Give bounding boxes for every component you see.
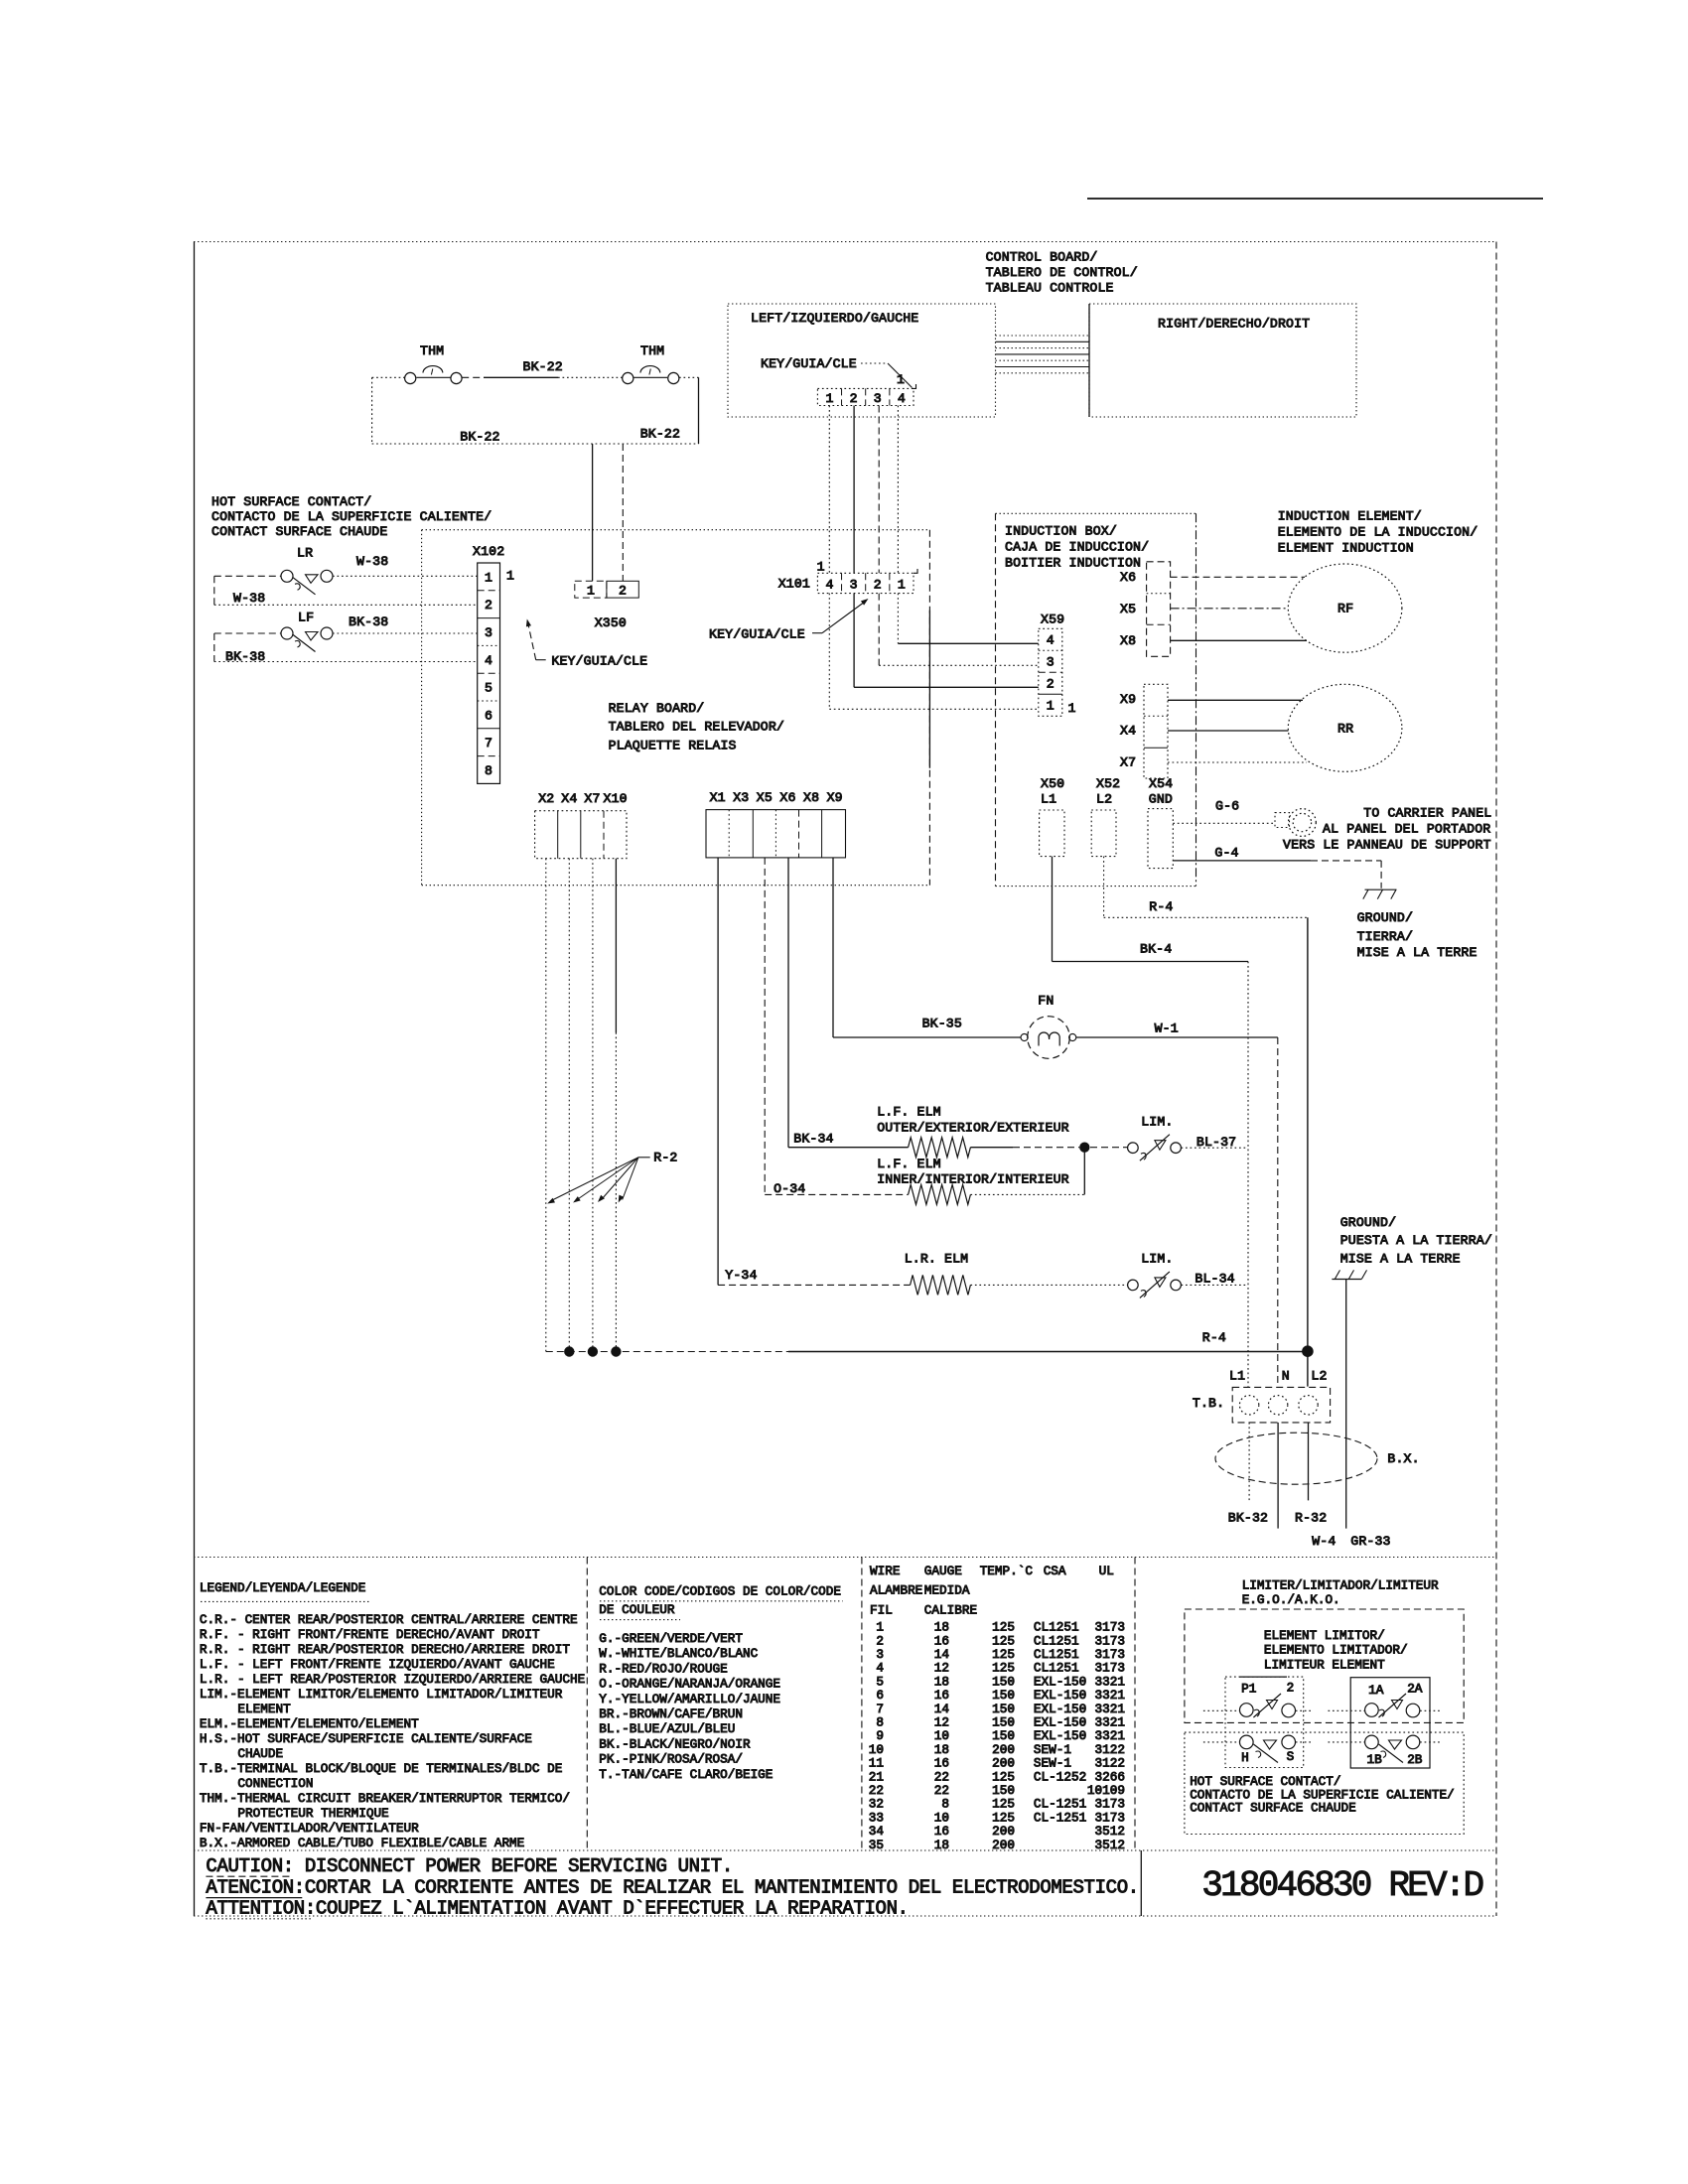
svg-text:TABLERO DE CONTROL/: TABLERO DE CONTROL/ [986, 265, 1138, 280]
key label for left board connector [761, 356, 913, 388]
wire key2 control to X101 [853, 406, 855, 574]
svg-text:1: 1 [587, 584, 595, 599]
svg-text:RIGHT/DERECHO/DROIT: RIGHT/DERECHO/DROIT [1158, 317, 1310, 332]
hot surface dotted box [1185, 1732, 1464, 1834]
ground puesta label lower [1340, 1215, 1492, 1267]
svg-text:X9: X9 [1120, 692, 1136, 707]
svg-text:FN: FN [1038, 994, 1054, 1009]
connector X350 [575, 581, 639, 630]
wire key1 control to X101 [828, 406, 830, 574]
svg-text:W-4: W-4 [1312, 1534, 1336, 1549]
svg-text:L.R. ELM: L.R. ELM [905, 1252, 969, 1267]
wire GR-33 ground to B.X. [1345, 1280, 1347, 1529]
svg-text:3: 3 [850, 578, 858, 593]
svg-text:INDUCTION BOX/: INDUCTION BOX/ [1005, 523, 1117, 538]
svg-text:W-1: W-1 [1155, 1022, 1179, 1036]
wire LF outer to junction [970, 1147, 1079, 1149]
svg-text:THM.-THERMAL CIRCUIT BREAKER/I: THM.-THERMAL CIRCUIT BREAKER/INTERRUPTOR… [200, 1791, 570, 1806]
svg-text:X102: X102 [473, 544, 504, 559]
svg-text:1: 1 [897, 372, 905, 387]
svg-text:1: 1 [506, 569, 514, 584]
svg-text:18: 18 [934, 1838, 949, 1852]
svg-text:1: 1 [825, 391, 833, 406]
svg-text:ATENCION:CORTAR LA CORRIENTE A: ATENCION:CORTAR LA CORRIENTE ANTES DE RE… [206, 1876, 1138, 1898]
svg-text:ELEMENTO LIMITADOR/: ELEMENTO LIMITADOR/ [1264, 1643, 1408, 1658]
caution text english [206, 1855, 733, 1877]
svg-text:BL.-BLUE/AZUL/BLEU: BL.-BLUE/AZUL/BLEU [599, 1721, 735, 1736]
divider colorcode/wiretable [861, 1558, 863, 1851]
svg-text:THM: THM [420, 343, 444, 358]
svg-text:N: N [1282, 1368, 1290, 1383]
svg-text:H.S.-HOT SURFACE/SUPERFICIE CA: H.S.-HOT SURFACE/SUPERFICIE CALIENTE/SUR… [200, 1731, 532, 1746]
limiter switch LIM2 [1128, 1252, 1182, 1291]
svg-text:L.R. - LEFT REAR/POSTERIOR IZQ: L.R. - LEFT REAR/POSTERIOR IZQUIERDO/ARR… [200, 1672, 585, 1687]
svg-text:TIERRA/: TIERRA/ [1357, 929, 1413, 944]
svg-text:TEMP.`C: TEMP.`C [980, 1564, 1034, 1578]
svg-text:BK-22: BK-22 [523, 359, 563, 374]
svg-text:2: 2 [850, 391, 858, 406]
element LF inner resistor [909, 1184, 971, 1204]
svg-text:X54: X54 [1149, 776, 1173, 791]
svg-text:2: 2 [1287, 1681, 1295, 1696]
svg-text:X59: X59 [1041, 613, 1064, 627]
wire X6 to RF [1171, 576, 1305, 578]
legend area top separator [194, 1557, 1496, 1559]
wire BK-35 relay X9 to fan [833, 858, 1021, 1037]
hot surface switch 1B-2B blade [1379, 1740, 1404, 1763]
left board connector 1-4 [817, 384, 915, 406]
control board label [986, 250, 1138, 296]
wire key3 control to X101 [878, 406, 880, 574]
switch LR hot surface contact [281, 546, 333, 583]
top title rule [1087, 198, 1543, 200]
ring terminal to carrier panel [1275, 809, 1316, 837]
junction LF elements [1079, 1143, 1089, 1153]
svg-text:LIMITEUR ELEMENT: LIMITEUR ELEMENT [1264, 1657, 1385, 1672]
wire X8 to RF [1171, 639, 1307, 641]
svg-text:BOITIER INDUCTION: BOITIER INDUCTION [1005, 555, 1141, 570]
svg-text:7: 7 [485, 736, 492, 751]
svg-text:X3: X3 [733, 790, 749, 805]
connector X9 X4 X7 [1120, 684, 1168, 778]
wire BK-38 lower loop [214, 633, 478, 664]
svg-text:LEFT/IZQUIERDO/GAUCHE: LEFT/IZQUIERDO/GAUCHE [751, 311, 918, 326]
svg-text:CALIBRE: CALIBRE [924, 1602, 977, 1617]
svg-text:X50: X50 [1041, 776, 1064, 791]
induction box outline [996, 513, 1196, 886]
switch LF blade [293, 632, 319, 652]
svg-text:1: 1 [1047, 698, 1055, 713]
svg-text:RF: RF [1337, 602, 1353, 616]
svg-text:FN-FAN/VENTILADOR/VENTILATEUR: FN-FAN/VENTILADOR/VENTILATEUR [200, 1821, 419, 1836]
ground tierra label upper [1357, 910, 1477, 960]
svg-text:H: H [1241, 1750, 1249, 1765]
hot surface switch H-S [1203, 1735, 1314, 1765]
svg-text:CSA: CSA [1044, 1564, 1066, 1578]
svg-text:G-4: G-4 [1214, 845, 1238, 860]
LF ELM outer label [877, 1105, 1069, 1136]
svg-text:2: 2 [1047, 676, 1055, 691]
legend entries [200, 1612, 585, 1850]
svg-text:R.R. - RIGHT REAR/POSTERIOR DE: R.R. - RIGHT REAR/POSTERIOR DERECHO/ARRI… [200, 1642, 570, 1657]
svg-text:CONTROL BOARD/: CONTROL BOARD/ [986, 250, 1098, 265]
svg-text:X7: X7 [584, 791, 600, 806]
svg-text:L.F. ELM: L.F. ELM [877, 1105, 941, 1120]
induction box label [1005, 523, 1149, 570]
svg-text:1: 1 [817, 560, 825, 575]
svg-text:GND: GND [1149, 791, 1173, 806]
connector X6 X5 X8 [1120, 562, 1171, 657]
svg-text:35: 35 [869, 1838, 884, 1852]
fan FN [1021, 994, 1076, 1059]
ground symbol lower [1332, 1270, 1366, 1279]
svg-text:B.X.: B.X. [1387, 1451, 1419, 1466]
svg-text:AL PANEL DEL PORTADOR: AL PANEL DEL PORTADOR [1323, 821, 1490, 836]
svg-text:ELEMENT INDUCTION: ELEMENT INDUCTION [1278, 541, 1414, 556]
connector X54 GND [1148, 776, 1173, 869]
control board left half box [728, 304, 996, 417]
terminal block labels L1 N L2 [1229, 1368, 1328, 1383]
svg-text:Y.-YELLOW/AMARILLO/JAUNE: Y.-YELLOW/AMARILLO/JAUNE [599, 1692, 780, 1706]
svg-text:X350: X350 [595, 615, 627, 630]
svg-text:WIRE: WIRE [870, 1564, 900, 1578]
wire X101-3 to X59-2 [854, 594, 1039, 688]
svg-text:BK-4: BK-4 [1140, 942, 1172, 957]
svg-text:DE COULEUR: DE COULEUR [599, 1602, 675, 1617]
svg-text:2A: 2A [1407, 1682, 1423, 1697]
svg-text:GAUGE: GAUGE [924, 1564, 962, 1578]
relay board box [422, 530, 930, 886]
svg-text:E.G.O./A.K.O.: E.G.O./A.K.O. [1242, 1592, 1340, 1607]
key label for X102 [526, 619, 647, 669]
hot surface switch H-S blade [1253, 1740, 1278, 1763]
svg-text:200: 200 [992, 1838, 1015, 1852]
svg-text:2: 2 [874, 578, 882, 593]
svg-text:3: 3 [874, 391, 882, 406]
svg-text:CONNECTION: CONNECTION [237, 1776, 313, 1791]
svg-text:4: 4 [898, 391, 906, 406]
hot surface contact label bottom [1190, 1774, 1454, 1815]
element limitor dashed box [1185, 1609, 1464, 1722]
svg-text:X52: X52 [1096, 776, 1120, 791]
relay board label [609, 701, 784, 752]
label R-2 with arrows [547, 1151, 677, 1204]
svg-text:INDUCTION ELEMENT/: INDUCTION ELEMENT/ [1278, 509, 1422, 524]
svg-text:ATTENTION:COUPEZ L`ALIMENTATIO: ATTENTION:COUPEZ L`ALIMENTATION AVANT D`… [206, 1897, 908, 1919]
svg-text:R-4: R-4 [1149, 899, 1173, 914]
limiter LIM2 blade [1140, 1272, 1170, 1298]
svg-text:GR-33: GR-33 [1350, 1534, 1390, 1549]
induction element RR [1288, 684, 1402, 771]
svg-text:CL-1252: CL-1252 [1034, 1769, 1086, 1784]
caution text french [206, 1897, 908, 1919]
svg-text:1: 1 [485, 570, 492, 585]
wire BK-34 relay X5 to LF outer element [788, 858, 909, 1148]
svg-text:4: 4 [1047, 632, 1055, 647]
caution text spanish [206, 1876, 1138, 1898]
svg-text:CONTACT SURFACE CHAUDE: CONTACT SURFACE CHAUDE [211, 524, 387, 539]
switch LF hot surface contact [281, 611, 333, 640]
element LR resistor [911, 1275, 971, 1295]
svg-text:X6: X6 [779, 790, 795, 805]
wire BL-37 [1182, 1135, 1249, 1150]
connector X50 L1 [1040, 776, 1065, 857]
LF ELM inner label [877, 1157, 1069, 1187]
svg-text:G-6: G-6 [1215, 799, 1239, 814]
svg-text:1: 1 [898, 578, 906, 593]
svg-text:4: 4 [825, 578, 833, 593]
svg-text:X4: X4 [561, 791, 577, 806]
svg-text:FIL: FIL [870, 1602, 893, 1617]
svg-text:INNER/INTERIOR/INTERIEUR: INNER/INTERIOR/INTERIEUR [877, 1172, 1069, 1187]
wire R-2 d [615, 859, 617, 1352]
svg-text:G.-GREEN/VERDE/VERT: G.-GREEN/VERDE/VERT [599, 1631, 743, 1646]
wire R-4 bottom bus [546, 1330, 1303, 1352]
hot surface contact label [211, 494, 492, 539]
svg-text:L.F. - LEFT FRONT/FRENTE IZQUI: L.F. - LEFT FRONT/FRENTE IZQUIERDO/AVANT… [200, 1657, 555, 1672]
svg-text:Y-34: Y-34 [725, 1268, 757, 1283]
wire R-4 from X52 [1104, 857, 1308, 1387]
svg-text:W.-WHITE/BLANCO/BLANC: W.-WHITE/BLANCO/BLANC [599, 1646, 758, 1661]
junction R-2 b [564, 1346, 574, 1356]
svg-text:1B: 1B [1367, 1752, 1383, 1767]
to carrier panel label [1283, 805, 1491, 852]
ribbon cable between board halves [996, 336, 1090, 373]
svg-text:ELM.-ELEMENT/ELEMENTO/ELEMENT: ELM.-ELEMENT/ELEMENTO/ELEMENT [200, 1716, 419, 1731]
limiter switch LIM1 [1128, 1115, 1182, 1154]
wire R-2 b [568, 859, 570, 1352]
page border frame [194, 242, 1496, 1917]
svg-text:RR: RR [1337, 722, 1353, 737]
wire G-6 to ring terminal [1173, 799, 1275, 824]
element limitor label [1264, 1628, 1408, 1673]
svg-text:LIM.: LIM. [1141, 1115, 1173, 1130]
element LF outer resistor [909, 1138, 971, 1158]
armored cable B.X. [1215, 1433, 1420, 1484]
thermal breaker THM1 [405, 343, 463, 384]
svg-text:T.B.: T.B. [1193, 1396, 1224, 1411]
svg-text:CAJA DE INDUCCION/: CAJA DE INDUCCION/ [1005, 540, 1149, 555]
svg-text:5: 5 [485, 681, 492, 696]
svg-text:RELAY BOARD/: RELAY BOARD/ [609, 701, 705, 716]
svg-text:MEDIDA: MEDIDA [924, 1583, 970, 1598]
svg-text:L1: L1 [1229, 1368, 1245, 1383]
svg-text:X5: X5 [757, 790, 773, 805]
wire X101-2 to X59-3 [879, 594, 1039, 666]
svg-text:R.F. - RIGHT FRONT/FRENTE DERE: R.F. - RIGHT FRONT/FRENTE DERECHO/AVANT … [200, 1627, 540, 1642]
svg-text:R-32: R-32 [1295, 1510, 1327, 1525]
svg-text:BK-34: BK-34 [793, 1132, 833, 1147]
svg-text:X101: X101 [778, 577, 810, 592]
svg-text:CHAUDE: CHAUDE [237, 1746, 283, 1761]
svg-text:ELEMENT LIMITOR/: ELEMENT LIMITOR/ [1264, 1628, 1385, 1643]
svg-text:L1: L1 [1041, 791, 1056, 806]
svg-text:ELEMENTO DE LA INDUCCION/: ELEMENTO DE LA INDUCCION/ [1278, 525, 1478, 540]
svg-text:CONTACTO DE LA SUPERFICIE CALI: CONTACTO DE LA SUPERFICIE CALIENTE/ [211, 509, 492, 524]
limiter EGO title [1242, 1577, 1439, 1607]
color code title [599, 1584, 842, 1620]
svg-text:B.X.-ARMORED CABLE/TUBO FLEXIB: B.X.-ARMORED CABLE/TUBO FLEXIBLE/CABLE A… [200, 1836, 524, 1850]
svg-text:X8: X8 [1120, 633, 1136, 648]
svg-text:R.-RED/ROJO/ROUGE: R.-RED/ROJO/ROUGE [599, 1661, 727, 1676]
wire W-38 lower loop [214, 576, 478, 606]
svg-text:UL: UL [1099, 1564, 1114, 1578]
wire W-4 below T.B. [1278, 1423, 1336, 1549]
wire X4 to RR [1168, 730, 1289, 732]
svg-text:BK-22: BK-22 [460, 430, 499, 445]
svg-text:X8: X8 [803, 790, 819, 805]
wire BL-34 [1182, 1272, 1249, 1287]
wire key4 control to X101 [897, 406, 899, 574]
wire X7 to RR [1168, 761, 1307, 763]
svg-text:X2: X2 [538, 791, 554, 806]
svg-text:1A: 1A [1368, 1683, 1384, 1698]
wire X101-1 to X59-4 [898, 594, 1038, 644]
wire X5 to RF [1171, 608, 1289, 610]
limiter sub-box right [1350, 1678, 1430, 1768]
svg-text:THM: THM [640, 343, 664, 358]
thermal breaker THM2 [623, 343, 679, 384]
svg-text:BK-22: BK-22 [640, 427, 680, 442]
wire X350 pin2 to BK-22 [622, 444, 624, 581]
svg-text:R-2: R-2 [653, 1151, 677, 1165]
legend title [200, 1580, 369, 1602]
svg-text:ELEMENT: ELEMENT [237, 1702, 291, 1716]
svg-text:T.B.-TERMINAL BLOCK/BLOQUE DE: T.B.-TERMINAL BLOCK/BLOQUE DE TERMINALES… [200, 1761, 562, 1776]
wire R-2 c [592, 859, 594, 1352]
svg-text:W-38: W-38 [233, 591, 265, 606]
svg-text:L2: L2 [1311, 1368, 1327, 1383]
svg-text:318046830 REV:D: 318046830 REV:D [1201, 1865, 1482, 1906]
svg-text:ALAMBRE: ALAMBRE [870, 1583, 922, 1598]
svg-text:4: 4 [485, 653, 492, 668]
wire junction to LIM1 [1090, 1147, 1127, 1149]
svg-text:KEY/GUIA/CLE: KEY/GUIA/CLE [709, 626, 805, 641]
wire BK-22 THM loop [372, 359, 699, 445]
svg-text:GROUND/: GROUND/ [1357, 910, 1413, 925]
svg-text:BR.-BROWN/CAFE/BRUN: BR.-BROWN/CAFE/BRUN [599, 1706, 743, 1721]
svg-text:LIM.-ELEMENT LIMITOR/ELEMENTO: LIM.-ELEMENT LIMITOR/ELEMENTO LIMITADOR/… [200, 1687, 563, 1702]
svg-text:L2: L2 [1096, 791, 1112, 806]
wire BK-4 from X50 [1053, 857, 1249, 1387]
wire G-4 [1173, 845, 1381, 888]
svg-text:TABLERO DEL RELEVADOR/: TABLERO DEL RELEVADOR/ [609, 720, 784, 735]
svg-text:TO CARRIER PANEL: TO CARRIER PANEL [1363, 805, 1491, 820]
svg-text:PUESTA A LA TIERRA/: PUESTA A LA TIERRA/ [1340, 1233, 1492, 1248]
wire Y-34 relay X1 to LR element [718, 858, 911, 1286]
connector X102 [473, 544, 514, 784]
connector X2 X4 X7 X10 [535, 791, 628, 859]
wire LR element to LIM2 [970, 1284, 1127, 1286]
wire W-1 fan to terminal N [1076, 1022, 1278, 1387]
svg-text:LR: LR [297, 546, 313, 561]
svg-text:X4: X4 [1120, 724, 1136, 739]
svg-text:C.R.- CENTER REAR/POSTERIOR CE: C.R.- CENTER REAR/POSTERIOR CENTRAL/ARRI… [200, 1612, 578, 1627]
svg-text:LEGEND/LEYENDA/LEGENDE: LEGEND/LEYENDA/LEGENDE [200, 1580, 366, 1595]
svg-text:CONTACT SURFACE CHAUDE: CONTACT SURFACE CHAUDE [1190, 1801, 1356, 1816]
svg-text:3512: 3512 [1095, 1838, 1125, 1852]
svg-text:X10: X10 [604, 791, 628, 806]
svg-text:BL-37: BL-37 [1196, 1135, 1236, 1150]
ground symbol upper [1363, 889, 1397, 898]
svg-text:GROUND/: GROUND/ [1340, 1215, 1396, 1230]
svg-text:KEY/GUIA/CLE: KEY/GUIA/CLE [551, 653, 647, 668]
wire W-38 upper [214, 554, 478, 576]
svg-text:LIM.: LIM. [1141, 1252, 1173, 1267]
svg-text:OUTER/EXTERIOR/EXTERIEUR: OUTER/EXTERIOR/EXTERIEUR [877, 1121, 1069, 1136]
wire LF inner to junction riser [970, 1152, 1084, 1194]
wire table rows [869, 1620, 1125, 1852]
svg-text:BK.-BLACK/NEGRO/NOIR: BK.-BLACK/NEGRO/NOIR [599, 1736, 751, 1751]
switch LR blade [293, 575, 319, 595]
wire table header [870, 1564, 1114, 1618]
svg-text:BK-32: BK-32 [1228, 1510, 1268, 1525]
legend area bottom separator [194, 1849, 1496, 1851]
svg-text:BL-34: BL-34 [1195, 1272, 1234, 1287]
svg-text:VERS LE PANNEAU DE SUPPORT: VERS LE PANNEAU DE SUPPORT [1283, 837, 1491, 852]
svg-text:W-38: W-38 [356, 554, 388, 569]
svg-text:CAUTION: DISCONNECT POWER BEFO: CAUTION: DISCONNECT POWER BEFORE SERVICI… [206, 1855, 733, 1877]
footer box left edge [1140, 1850, 1142, 1916]
junction R-2 d [611, 1346, 621, 1356]
svg-text:1: 1 [1068, 701, 1076, 716]
svg-text:O-34: O-34 [774, 1181, 805, 1196]
limiter switch 1A-2A blade [1379, 1694, 1407, 1717]
connector X101 [778, 560, 917, 594]
induction element label [1278, 509, 1478, 556]
svg-text:T.-TAN/CAFE CLARO/BEIGE: T.-TAN/CAFE CLARO/BEIGE [599, 1767, 773, 1782]
svg-text:6: 6 [485, 708, 492, 723]
svg-text:CL-1251: CL-1251 [1034, 1810, 1086, 1825]
limiter LIM1 blade [1140, 1135, 1170, 1161]
divider legend/colorcode [586, 1558, 588, 1851]
color code entries [599, 1631, 780, 1782]
wire R-32 below T.B. [1295, 1423, 1327, 1525]
key label for X101 [709, 599, 869, 641]
control board right half box [1089, 304, 1356, 417]
svg-text:TABLEAU CONTROLE: TABLEAU CONTROLE [986, 281, 1114, 296]
limiter switch P1-2 blade [1253, 1694, 1281, 1717]
svg-text:PROTECTEUR THERMIQUE: PROTECTEUR THERMIQUE [237, 1806, 388, 1821]
svg-text:2: 2 [485, 598, 492, 613]
svg-text:R-4: R-4 [1202, 1330, 1226, 1345]
limiter switch 1A-2A [1329, 1682, 1443, 1717]
svg-text:3: 3 [1047, 654, 1055, 669]
connector X1 X3 X5 X6 X8 X9 [706, 790, 846, 858]
wire O-34 relay X3 to LF inner element [765, 858, 908, 1196]
junction R-2 c [588, 1346, 598, 1356]
wire X101-4 to X59-1 [829, 594, 1039, 710]
wire R-2 a [545, 859, 547, 1352]
svg-text:2: 2 [619, 584, 627, 599]
svg-text:O.-ORANGE/NARANJA/ORANGE: O.-ORANGE/NARANJA/ORANGE [599, 1677, 780, 1692]
svg-text:P1: P1 [1241, 1682, 1256, 1697]
hot surface switch 1B-2B [1329, 1735, 1443, 1767]
svg-text:BK-38: BK-38 [349, 614, 388, 629]
svg-text:X7: X7 [1120, 755, 1136, 770]
svg-text:X6: X6 [1120, 570, 1136, 585]
wire BK-38 upper [214, 614, 478, 633]
svg-text:X1: X1 [710, 790, 726, 805]
svg-text:3: 3 [485, 625, 492, 640]
svg-text:2B: 2B [1407, 1752, 1423, 1767]
svg-text:8: 8 [485, 763, 492, 778]
divider wiretable/limiter [1134, 1558, 1136, 1851]
svg-text:MISE A LA TERRE: MISE A LA TERRE [1357, 945, 1477, 960]
terminal block T.B. [1193, 1387, 1331, 1423]
svg-text:HOT SURFACE CONTACT/: HOT SURFACE CONTACT/ [211, 494, 371, 509]
svg-text:KEY/GUIA/CLE: KEY/GUIA/CLE [761, 356, 857, 371]
